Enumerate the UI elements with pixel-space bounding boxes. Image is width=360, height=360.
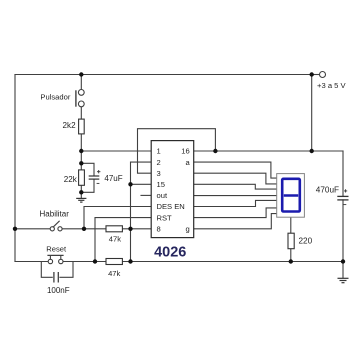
wire capacitor 470uF to ground bus — [342, 200, 344, 262]
IC U1 4026 body — [151, 141, 194, 238]
capacitor 470uF (electrolytic) — [337, 189, 348, 204]
wire R 2k2 to clock node — [80, 134, 82, 151]
wire IC pin 15 stub to branch — [131, 183, 152, 185]
svg-text:15: 15 — [157, 180, 165, 189]
wire Pulsador top — [80, 75, 82, 90]
wire clock node down to ground node — [80, 151, 82, 192]
ground (left, below 22k) — [76, 198, 86, 202]
node 220 / ground bus — [289, 259, 293, 263]
node RST / Reset row — [93, 259, 97, 263]
svg-text:100nF: 100nF — [47, 286, 70, 295]
svg-text:4026: 4026 — [154, 245, 186, 261]
wire segment c — [194, 184, 277, 189]
wire segment g — [194, 214, 277, 229]
display 7-segment module box — [277, 174, 305, 218]
wire Reset button to ground bus right — [63, 261, 343, 263]
svg-text:out: out — [157, 191, 168, 200]
resistor 2k2 — [79, 119, 85, 134]
resistor 47k (upper) — [106, 226, 122, 232]
node +V tap — [310, 72, 314, 76]
wire Pulsador to R 2k2 — [80, 107, 82, 119]
wire segment e — [194, 200, 277, 206]
node Pulsador / top rail — [79, 72, 83, 76]
wire IC pin 2 branch — [131, 162, 152, 261]
svg-text:Habilitar: Habilitar — [40, 209, 70, 218]
svg-text:Reset: Reset — [46, 245, 67, 254]
wire segment b — [194, 173, 277, 184]
terminal +V circle — [320, 72, 326, 78]
svg-text:1: 1 — [157, 147, 161, 156]
capacitor 47uF (electrolytic) — [89, 170, 101, 183]
wire +V drop to pin16 net — [311, 75, 313, 152]
node pin15 branch — [128, 182, 132, 186]
node loop / pin16 — [213, 149, 217, 153]
svg-text:16: 16 — [181, 147, 189, 156]
IC pin labels left — [157, 147, 185, 234]
pushbutton Pulsador — [76, 90, 84, 107]
svg-text:DES EN: DES EN — [157, 202, 185, 211]
svg-text:Pulsador: Pulsador — [40, 93, 70, 102]
node 22k/47uF bottom gnd — [79, 190, 83, 194]
svg-text:g: g — [185, 225, 189, 234]
wire DES EN to Habilitar node — [84, 207, 151, 229]
resistor 47k (lower) — [106, 259, 122, 265]
wire clock node to IC pin 1 — [81, 150, 151, 152]
node left border / Habilitar — [13, 227, 17, 231]
node switch / DES EN / 47k — [82, 227, 86, 231]
svg-text:22k: 22k — [64, 175, 78, 184]
IC pin labels right — [181, 147, 190, 234]
wire resistor 220 to ground bus — [290, 249, 292, 262]
wire IC pin 16 to right rail — [194, 150, 343, 152]
wire left border rail — [14, 75, 16, 262]
wire display common to resistor 220 — [290, 217, 292, 233]
node branch / ground bus — [128, 259, 132, 263]
resistor 22k — [79, 170, 85, 185]
wire top +V rail — [15, 74, 312, 76]
wire RST to Reset node — [95, 218, 151, 262]
wire segment a — [194, 162, 277, 178]
pushbutton Reset — [47, 255, 63, 263]
wire Habilitar row — [15, 228, 50, 230]
svg-text:+3 a 5 V: +3 a 5 V — [317, 81, 346, 90]
svg-text:8: 8 — [157, 225, 161, 234]
wire node to capacitor 47uF top — [81, 163, 94, 176]
wire left ground stub — [80, 192, 82, 198]
ground (right, bottom rail) — [338, 278, 349, 282]
wire right rail to capacitor 470uF — [342, 151, 344, 196]
svg-text:2k2: 2k2 — [63, 121, 77, 130]
wire capacitor 47uF bottom return — [81, 179, 94, 192]
switch Habilitar — [50, 221, 62, 231]
node 47k / pin8 / branch — [128, 227, 132, 231]
node +V drop / pin16 — [310, 149, 314, 153]
svg-text:47uF: 47uF — [104, 174, 122, 183]
wire segment f — [194, 208, 277, 218]
svg-text:RST: RST — [157, 213, 173, 222]
svg-text:47k: 47k — [108, 269, 120, 278]
node right rail / ground bus — [341, 259, 345, 263]
wire switch to 47k and IC pin 8 — [62, 228, 151, 230]
capacitor 100nF — [41, 262, 73, 283]
svg-text:3: 3 — [157, 169, 161, 178]
display 7-segment digit 8 — [282, 179, 300, 212]
wire IC out stub — [141, 194, 151, 196]
wire IC pin 3 loop over IC to pin 16 — [138, 129, 216, 174]
wire +V terminal stub — [312, 74, 320, 76]
node 22k/47uF top — [79, 161, 83, 165]
wire right ground stub — [342, 262, 344, 278]
resistor 220 — [288, 233, 294, 249]
wire segment d — [194, 195, 277, 197]
svg-text:2: 2 — [157, 158, 161, 167]
svg-text:47k: 47k — [109, 234, 121, 243]
svg-text:220: 220 — [299, 236, 313, 245]
wire Reset row ground bus — [15, 261, 48, 263]
svg-text:470uF: 470uF — [316, 186, 339, 195]
node clock (pin1) — [79, 149, 83, 153]
